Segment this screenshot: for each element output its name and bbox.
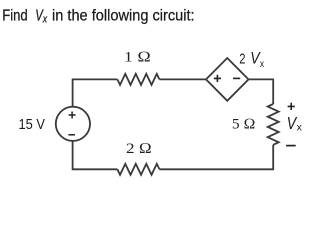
svg-text:x: x [297, 121, 303, 133]
svg-text:2: 2 [239, 51, 245, 68]
polarity - inside diamond [233, 77, 240, 79]
title: Find Vx in the following circuit: [2, 7, 194, 25]
polarity + inside source circle [69, 112, 76, 119]
svg-text:15 V: 15 V [19, 116, 45, 133]
svg-text:Find: Find [2, 7, 28, 24]
svg-text:x: x [42, 14, 48, 26]
resistor R2 zigzag (2 ohm, bottom) [117, 164, 159, 175]
voltage source V1 circle (15 V) [56, 107, 90, 141]
label Vx (voltage across 5 ohm) [287, 113, 303, 133]
svg-text:in the following circuit:: in the following circuit: [52, 7, 195, 24]
resistor R1 zigzag (1 ohm, top) [117, 74, 159, 85]
resistor R3 zigzag (5 ohm, right) [268, 104, 279, 145]
wire: dependent source to top-right corner down to 5 ohm [249, 79, 274, 104]
dependent source U1 diamond (2 Vx) [206, 58, 249, 101]
polarity + inside diamond [214, 75, 221, 82]
svg-text:5 Ω: 5 Ω [232, 117, 256, 133]
wire: R1 to dependent source [159, 78, 206, 80]
wire: 5 ohm to bottom-right corner to R2 [159, 145, 273, 170]
label 2 Vx (dependent source value) [239, 50, 264, 70]
svg-text:x: x [260, 58, 265, 70]
svg-text:2 Ω: 2 Ω [126, 141, 152, 157]
svg-text:1 Ω: 1 Ω [124, 50, 151, 66]
polarity - for Vx (right of 5 ohm) [286, 145, 296, 147]
polarity + for Vx (right of 5 ohm) [288, 103, 295, 110]
wire: top-left corner (source top to R1) [73, 79, 118, 107]
wire: R2 to bottom-left corner up to source bottom [73, 141, 118, 170]
polarity - inside source circle [68, 134, 75, 136]
